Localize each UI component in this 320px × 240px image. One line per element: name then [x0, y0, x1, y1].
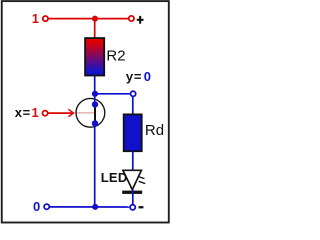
switch contact top (dot) — [92, 101, 98, 107]
switch contact bottom (dot) — [92, 120, 98, 126]
resistor Rd (blue) — [124, 114, 142, 151]
arrowhead x control — [68, 109, 73, 116]
terminal + (top-right) — [129, 16, 134, 21]
svg-text:=: = — [23, 105, 31, 120]
wire branch to y terminal (blue) — [95, 93, 130, 95]
terminal 0 (bottom-left) — [44, 204, 49, 209]
wire from R2 down to branch junction (blue) — [94, 76, 96, 94]
svg-text:1: 1 — [32, 11, 39, 26]
junction bottom rail — [92, 204, 98, 210]
wire y terminal down to Rd (blue) — [132, 97, 134, 114]
label - — [139, 206, 144, 208]
svg-text:x: x — [15, 105, 23, 120]
svg-text:1: 1 — [32, 105, 39, 120]
svg-text:Rd: Rd — [145, 122, 164, 139]
resistor R2 (gradient red to blue) — [85, 38, 104, 75]
wire top rail (red, logic 1) — [49, 18, 129, 20]
wire from top junction down to R2 (red) — [94, 19, 96, 38]
transistor switch body (circle) — [76, 98, 105, 127]
svg-text:0: 0 — [144, 69, 151, 84]
svg-text:0: 0 — [33, 199, 40, 214]
wire x control (red) — [48, 112, 72, 114]
wire switch bottom to bottom rail (blue) — [94, 123, 96, 206]
LED diode triangle — [123, 170, 141, 189]
junction top rail — [92, 16, 98, 22]
LED ray 2 — [139, 181, 145, 183]
terminal x (open circle red) — [43, 111, 48, 116]
wire LED to - terminal (blue) — [132, 190, 134, 204]
wire Rd down to LED (blue) — [132, 151, 134, 170]
terminal y (open circle) — [131, 91, 136, 96]
terminal - (bottom-right) — [130, 205, 135, 210]
junction node y branch — [92, 91, 98, 97]
svg-text:=: = — [134, 69, 142, 84]
svg-text:LED: LED — [101, 170, 128, 185]
switch bar — [94, 106, 96, 122]
LED cathode bar — [122, 191, 142, 194]
border frame — [2, 1, 169, 222]
svg-text:R2: R2 — [106, 48, 125, 65]
wire into switch top (blue) — [94, 94, 96, 105]
terminal (top-left input, node 1) — [43, 16, 48, 21]
svg-text:y: y — [126, 69, 134, 84]
label + — [137, 19, 144, 21]
LED ray 1 — [138, 176, 144, 178]
wire light red into switch — [74, 112, 94, 114]
wire bottom rail (blue, logic 0) — [50, 206, 129, 208]
